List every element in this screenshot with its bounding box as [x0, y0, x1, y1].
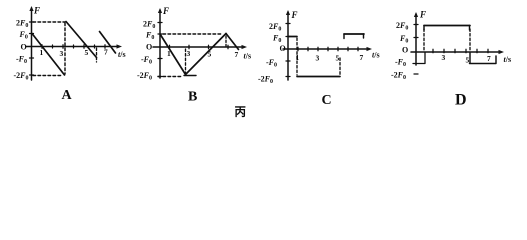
svg-text:F0: F0: [399, 34, 408, 45]
svg-text:-2F0: -2F0: [14, 71, 29, 82]
graph C x-axis arrowhead: [367, 47, 373, 51]
graph C dashed vertical rise at t=5: [339, 58, 341, 75]
graph A dashed horizontal at 2F0: [33, 21, 65, 23]
svg-text:O: O: [21, 43, 27, 52]
svg-text:丙: 丙: [235, 106, 247, 119]
svg-text:5: 5: [336, 54, 340, 63]
svg-text:t/s: t/s: [244, 52, 252, 61]
graph D dashed vertical at t=1: [423, 29, 425, 51]
graph D x-axis arrowhead: [499, 50, 505, 54]
svg-text:5: 5: [466, 56, 470, 65]
graph A y-axis arrowhead: [29, 6, 33, 11]
graph D y-axis: [415, 14, 417, 65]
graph B peak dashed vertical: [225, 36, 227, 46]
graph B dashed horizontal at F0: [163, 33, 221, 35]
graph A y-axis ticks: [30, 22, 34, 75]
svg-text:F: F: [33, 6, 40, 16]
svg-text:F0: F0: [272, 34, 281, 45]
graph A dashed vertical at t=6: [96, 48, 98, 62]
svg-text:B: B: [188, 90, 197, 105]
svg-text:3: 3: [187, 49, 191, 58]
graph C dashed vertical drop at t=1: [296, 38, 298, 75]
graph B dashed vertical at V bottom: [185, 49, 187, 73]
svg-text:2F0: 2F0: [16, 19, 28, 30]
svg-text:C: C: [322, 93, 332, 108]
graph A x-axis: [26, 46, 119, 48]
graph B x-axis arrowhead: [242, 45, 248, 49]
graph D dashed vertical at t=5: [469, 29, 471, 51]
graph C first pulse top at F0: [288, 36, 297, 38]
graph C x-axis: [283, 48, 369, 50]
graph B x-axis ticks: [170, 45, 229, 49]
svg-text:O: O: [146, 43, 152, 52]
svg-text:3: 3: [316, 54, 320, 63]
graph C y-axis: [287, 12, 289, 80]
graph A x-axis ticks: [42, 45, 105, 49]
graph B final descending segment: [226, 34, 239, 50]
svg-text:7: 7: [487, 54, 491, 63]
svg-text:-F0: -F0: [16, 55, 27, 66]
svg-text:O: O: [402, 46, 408, 55]
svg-text:-F0: -F0: [141, 55, 152, 66]
graph D x-axis ticks: [433, 49, 488, 52]
svg-text:1: 1: [167, 49, 171, 58]
svg-text:1: 1: [296, 53, 300, 62]
graph A y-axis: [31, 8, 33, 80]
svg-text:2F0: 2F0: [269, 22, 281, 33]
svg-text:7: 7: [104, 48, 108, 57]
svg-text:3: 3: [442, 53, 446, 62]
svg-text:F: F: [162, 6, 169, 16]
graph D right box at -F0: [470, 53, 497, 64]
graph A segment 2: 2F0 down past axis: [66, 22, 97, 58]
graph D big pulse top at 2F0: [424, 25, 470, 27]
svg-text:7: 7: [360, 53, 364, 62]
graph B dashed horizontal at -2F0: [158, 76, 183, 78]
graph B ascending segment: [186, 34, 227, 75]
graph C y-axis ticks: [286, 24, 290, 77]
svg-text:7: 7: [235, 50, 239, 59]
graph C second pulse top: [344, 33, 364, 35]
svg-text:F: F: [291, 10, 298, 20]
svg-text:O: O: [280, 44, 286, 53]
graph C bottom pulse at -2F0: [297, 76, 340, 78]
svg-text:2F0: 2F0: [143, 20, 155, 31]
svg-text:D: D: [455, 92, 467, 109]
svg-text:t/s: t/s: [372, 51, 380, 60]
svg-text:F0: F0: [19, 30, 28, 41]
svg-text:-2F0: -2F0: [137, 71, 152, 82]
svg-text:t/s: t/s: [118, 50, 126, 59]
graph D x-axis: [411, 51, 501, 53]
svg-text:-2F0: -2F0: [391, 71, 406, 82]
svg-text:F0: F0: [145, 31, 154, 42]
graph C second pulse end ticks: [344, 34, 364, 39]
svg-text:A: A: [62, 88, 73, 103]
graph D left small box at -F0: [413, 53, 425, 64]
svg-text:-F0: -F0: [395, 58, 406, 69]
graph A dashed horizontal at -2F0: [33, 75, 63, 77]
graph A x-axis arrowhead: [117, 44, 123, 48]
svg-text:-2F0: -2F0: [258, 75, 273, 86]
graph D y-axis ticks: [414, 25, 418, 75]
graph A segment 1: F0 down to -2F0: [32, 34, 65, 76]
graph D y-axis arrowhead: [414, 12, 418, 17]
graph A dashed vertical at t=3: [64, 23, 66, 74]
svg-text:-F0: -F0: [266, 58, 277, 69]
graph B y-axis ticks: [158, 23, 162, 77]
svg-text:1: 1: [40, 48, 44, 57]
graph B y-axis: [159, 10, 161, 78]
svg-text:F: F: [419, 10, 426, 20]
graph B descending segment from F0: [160, 34, 186, 75]
graph C y-axis arrowhead: [286, 10, 290, 15]
graph D big pulse end ticks: [424, 26, 470, 31]
svg-text:3: 3: [60, 49, 64, 58]
svg-text:5: 5: [208, 50, 212, 59]
svg-text:t/s: t/s: [504, 55, 512, 64]
graph A segment 3: [100, 32, 116, 54]
graph C x-axis ticks: [298, 47, 358, 51]
svg-text:5: 5: [85, 48, 89, 57]
graph B y-axis arrowhead: [158, 8, 162, 13]
graph B V bottom bar: [184, 75, 196, 77]
svg-text:2F0: 2F0: [396, 21, 408, 32]
graph B x-axis: [153, 46, 244, 48]
